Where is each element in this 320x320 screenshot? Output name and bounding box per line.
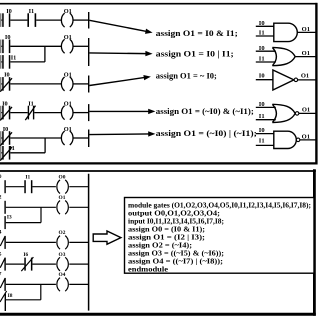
svg-text:I0: I0: [259, 101, 265, 108]
svg-text:O1: O1: [59, 195, 66, 201]
svg-text:O4: O4: [59, 272, 66, 278]
svg-text:I1: I1: [28, 100, 34, 107]
svg-text:O1: O1: [64, 8, 72, 15]
svg-text:I0: I0: [2, 100, 8, 107]
svg-text:O2: O2: [59, 230, 66, 236]
svg-text:O0: O0: [59, 174, 66, 180]
svg-text:I1: I1: [259, 30, 265, 37]
svg-text:endmodule: endmodule: [128, 266, 168, 273]
svg-text:O1: O1: [64, 100, 72, 107]
svg-text:I1: I1: [259, 113, 265, 120]
svg-text:I0: I0: [6, 8, 12, 15]
svg-text:I1: I1: [25, 175, 30, 181]
svg-text:I0: I0: [259, 127, 265, 134]
svg-text:assign O1 = ~ I0;: assign O1 = ~ I0;: [156, 70, 217, 80]
svg-text:I6: I6: [23, 252, 28, 258]
svg-text:assign O1 = (I2 | I3);: assign O1 = (I2 | I3);: [128, 234, 205, 241]
svg-text:I1: I1: [259, 137, 265, 144]
svg-text:I0: I0: [3, 126, 9, 133]
svg-text:I0: I0: [259, 45, 265, 52]
svg-text:output O0,O1,O2,O3,O4;: output O0,O1,O2,O3,O4;: [128, 210, 220, 217]
svg-text:module gates (O1,O2,O3,O4,O5,I: module gates (O1,O2,O3,O4,O5,I0,I1,I2,I3…: [128, 202, 311, 209]
svg-text:assign O1 = (~I0) | (~I1);: assign O1 = (~I0) | (~I1);: [156, 128, 257, 138]
svg-text:I0: I0: [5, 34, 11, 41]
svg-text:I1: I1: [9, 145, 15, 152]
svg-text:assign O2 = (~I4);: assign O2 = (~I4);: [128, 242, 192, 249]
svg-text:assign O1 = (~I0) & (~I1);: assign O1 = (~I0) & (~I1);: [156, 106, 254, 116]
svg-text:assign O4 = ((~I7) | (~I8));: assign O4 = ((~I7) | (~I8));: [128, 258, 223, 265]
svg-text:I1: I1: [259, 55, 265, 62]
svg-text:O1: O1: [302, 26, 310, 33]
svg-text:O1: O1: [302, 133, 310, 140]
svg-text:O1: O1: [64, 126, 72, 133]
svg-text:assign O1 = I0 & I1;: assign O1 = I0 & I1;: [156, 28, 238, 38]
svg-text:I1: I1: [11, 54, 17, 61]
svg-text:input I0,I1,I2,I3,I4,I5,I6,I7,: input I0,I1,I2,I3,I4,I5,I6,I7,I8;: [128, 218, 224, 225]
svg-text:I0: I0: [259, 72, 265, 79]
svg-text:I1: I1: [29, 8, 35, 15]
svg-text:O1: O1: [302, 107, 310, 114]
svg-text:O1: O1: [64, 34, 72, 41]
svg-text:I0: I0: [259, 20, 265, 27]
svg-text:assign O0 = (I0 & I1);: assign O0 = (I0 & I1);: [128, 226, 205, 233]
svg-text:I0: I0: [4, 72, 10, 79]
svg-text:O3: O3: [59, 252, 66, 258]
svg-text:assign O1 = I0 | I1;: assign O1 = I0 | I1;: [156, 49, 234, 59]
svg-text:O1: O1: [64, 72, 72, 79]
svg-text:assign O3 = ((~I5) & (~I6));: assign O3 = ((~I5) & (~I6));: [128, 250, 224, 257]
svg-text:I3: I3: [7, 214, 12, 220]
svg-text:O1: O1: [302, 50, 310, 57]
svg-text:O1: O1: [301, 72, 309, 79]
svg-text:I8: I8: [8, 293, 13, 299]
